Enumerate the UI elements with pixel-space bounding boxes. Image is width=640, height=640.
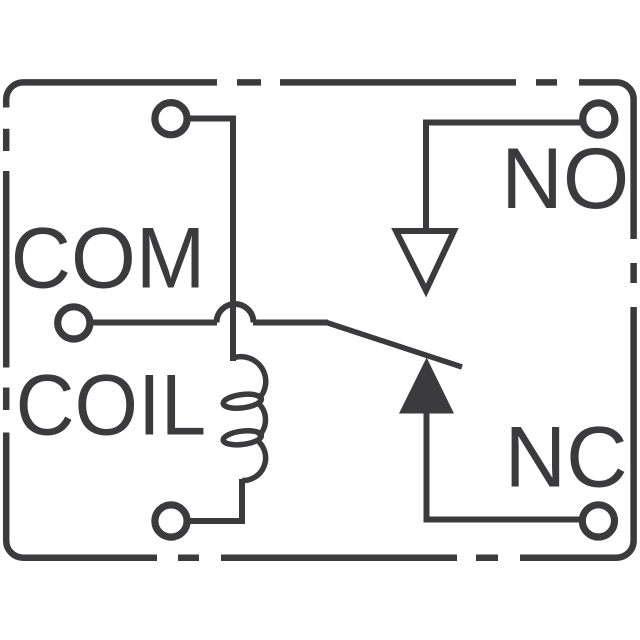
NC contact arrow (solid triangle) bbox=[399, 358, 454, 414]
wire: NC lead down to pin bbox=[427, 412, 583, 520]
svg-text:COM: COM bbox=[11, 211, 206, 307]
inductor coil L1 middle arc bbox=[258, 403, 266, 437]
svg-text:NO: NO bbox=[501, 131, 629, 227]
inductor coil L1 top arc bbox=[233, 357, 266, 400]
relay body outline (dashed rounded border) bbox=[6, 82, 633, 557]
NO contact arrow (open triangle) bbox=[396, 231, 454, 291]
wire: coil pin 1 lead bbox=[186, 119, 233, 362]
pin circle left (COM pin) bbox=[58, 307, 90, 339]
wire: NO lead from pin bbox=[426, 123, 580, 230]
wire hop over coil lead bbox=[217, 304, 254, 323]
pin circle bottom-right (NC pin) bbox=[582, 505, 614, 537]
wire: coil pin 2 lead bbox=[187, 479, 242, 521]
pin circle top-right (NO pin) bbox=[583, 103, 615, 135]
svg-text:NC: NC bbox=[505, 410, 628, 506]
inductor coil L1 loop 2 bbox=[222, 429, 262, 447]
inductor coil L1 bottom arc bbox=[242, 441, 266, 481]
pin circle top-left (coil pin 1) bbox=[155, 103, 187, 135]
svg-text:COIL: COIL bbox=[16, 357, 207, 453]
switch lever COM to NC bbox=[327, 323, 463, 368]
inductor coil L1 loop 1 bbox=[222, 392, 262, 410]
wire: COM lead right of hop bbox=[253, 320, 328, 326]
wire: COM lead left of hop bbox=[90, 320, 218, 326]
pin circle bottom-left (coil pin 2) bbox=[155, 505, 187, 537]
